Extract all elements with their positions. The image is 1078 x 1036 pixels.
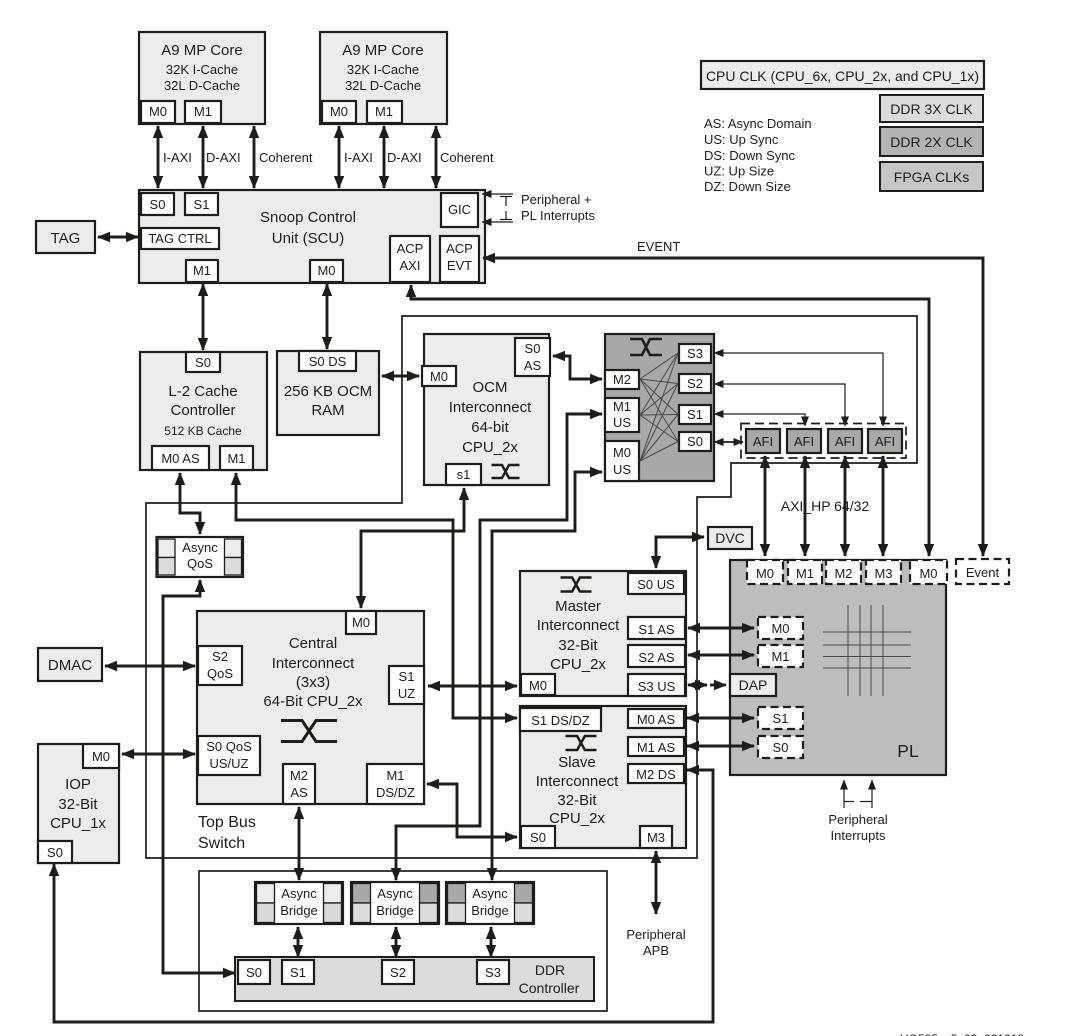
port S2 AS of Master xyxy=(628,645,685,667)
crossbar mesh lines xyxy=(640,353,678,379)
svg-text:32-Bit: 32-Bit xyxy=(557,792,597,809)
svg-text:D-AXI: D-AXI xyxy=(206,150,241,165)
wire D-AXI core1 M1 to SCU S1 xyxy=(202,126,205,188)
svg-text:DVC: DVC xyxy=(715,530,745,546)
svg-text:UZ: Up Size: UZ: Up Size xyxy=(704,164,774,179)
svg-text:CPU_1x: CPU_1x xyxy=(50,815,106,832)
svg-text:Interconnect: Interconnect xyxy=(272,655,355,672)
wire switch S3 to AFI4 xyxy=(714,353,883,426)
wire SCU M1 to L2 S0 xyxy=(202,284,205,350)
port S1 UZ of Central xyxy=(389,666,424,704)
svg-text:Async: Async xyxy=(182,540,218,555)
svg-text:Slave: Slave xyxy=(558,754,596,771)
wire I-AXI core1 M0 to SCU S0 xyxy=(157,126,160,188)
svg-text:AS: AS xyxy=(290,785,308,800)
port S2 QoS of Central xyxy=(198,646,242,685)
port S1 of DDR switch xyxy=(679,405,711,424)
svg-text:CPU CLK (CPU_6x, CPU_2x, and C: CPU CLK (CPU_6x, CPU_2x, and CPU_1x) xyxy=(706,68,979,84)
wire OCM S0 AS to switch M2 xyxy=(553,356,602,379)
wire Slave M1 AS to PL S0 xyxy=(687,745,754,748)
port S1 AS of Master xyxy=(628,617,685,639)
svg-text:512 KB Cache: 512 KB Cache xyxy=(164,424,242,438)
svg-text:Controller: Controller xyxy=(519,980,580,996)
svg-text:S0: S0 xyxy=(195,355,211,370)
block AFI 3 xyxy=(828,429,862,453)
wire SCU M0 to OCM RAM S0 DS xyxy=(326,284,329,349)
svg-text:OCM: OCM xyxy=(473,379,508,396)
block DMAC xyxy=(38,648,102,681)
wire PL interrupts to GIC lower xyxy=(482,221,513,223)
svg-text:CPU_2x: CPU_2x xyxy=(550,656,606,673)
port M0 AXI_HP of PL xyxy=(747,560,783,584)
svg-text:M0: M0 xyxy=(756,566,774,581)
wire Async QoS to DDR S0 xyxy=(163,580,235,973)
svg-text:M2 DS: M2 DS xyxy=(636,767,676,782)
port M2 of DDR switch xyxy=(605,370,639,389)
port S1 of SCU xyxy=(185,193,218,215)
wire L2 M1 to Slave S1 DS/DZ xyxy=(236,473,517,718)
port ACP AXI of SCU xyxy=(390,236,430,282)
svg-text:DDR 3X CLK: DDR 3X CLK xyxy=(890,101,973,117)
tick group symbol upper xyxy=(500,196,512,198)
svg-text:64-Bit CPU_2x: 64-Bit CPU_2x xyxy=(263,693,363,710)
svg-text:32K I-Cache: 32K I-Cache xyxy=(347,62,419,77)
svg-text:M1: M1 xyxy=(227,451,245,466)
legend box FPGA CLKs xyxy=(880,162,983,191)
port M0 AS of Slave xyxy=(628,709,684,728)
svg-text:GIC: GIC xyxy=(448,202,471,217)
port M0 of IOP xyxy=(83,744,119,768)
svg-text:(3x3): (3x3) xyxy=(296,674,330,691)
svg-text:64-bit: 64-bit xyxy=(471,419,509,436)
wire Central S1 UZ to Master M0 xyxy=(428,685,517,688)
svg-text:S0 DS: S0 DS xyxy=(309,354,347,369)
port M0 of A9 core 1 xyxy=(141,101,175,123)
wire ACP AXI to PL M0 xyxy=(411,285,929,556)
wire EVENT from ACP EVT to PL Event xyxy=(483,258,983,556)
port GIC of SCU xyxy=(441,193,478,227)
wire L2 M0 AS to Async QoS xyxy=(180,473,200,534)
port S3 of DDR xyxy=(477,960,509,984)
svg-text:ACP: ACP xyxy=(397,241,424,256)
port M1 AXI_HP of PL xyxy=(788,560,822,584)
legend box DDR 2X CLK xyxy=(880,127,983,156)
svg-text:S3: S3 xyxy=(687,346,703,361)
svg-text:S1: S1 xyxy=(194,197,210,212)
svg-text:M3: M3 xyxy=(647,830,665,845)
svg-text:Controller: Controller xyxy=(170,402,235,419)
wire switch S2 to AFI3 xyxy=(714,384,845,426)
svg-text:M0: M0 xyxy=(92,749,110,764)
svg-text:Interconnect: Interconnect xyxy=(537,617,620,634)
port S0 DS of OCM RAM xyxy=(299,351,356,371)
svg-text:IOP: IOP xyxy=(65,776,91,793)
icon crossbar OCM interconnect xyxy=(492,465,520,478)
svg-text:Switch: Switch xyxy=(198,835,245,852)
svg-text:S0: S0 xyxy=(47,845,63,860)
port M3 of Slave xyxy=(640,826,672,848)
svg-text:Unit (SCU): Unit (SCU) xyxy=(272,230,345,247)
block AFI 4 xyxy=(868,429,902,453)
svg-text:US: Up Sync: US: Up Sync xyxy=(704,132,779,147)
svg-text:AS: AS xyxy=(524,358,542,373)
port M1 of SCU xyxy=(186,260,218,282)
wire I-AXI core2 M0 to SCU xyxy=(338,126,341,188)
port M0 of Central xyxy=(346,611,376,634)
wire OCM RAM to OCM interconnect M0 xyxy=(382,375,419,378)
svg-text:M0: M0 xyxy=(771,621,789,636)
svg-text:US: US xyxy=(613,462,631,477)
svg-text:D-AXI: D-AXI xyxy=(387,150,422,165)
svg-text:Peripheral: Peripheral xyxy=(626,927,685,942)
svg-text:Interrupts: Interrupts xyxy=(831,828,886,843)
svg-text:32L D-Cache: 32L D-Cache xyxy=(164,78,240,93)
svg-text:DAP: DAP xyxy=(739,677,768,693)
wire Central M1 DS/DZ to Slave S0 xyxy=(427,784,517,837)
svg-text:M0: M0 xyxy=(430,369,448,384)
svg-text:AFI: AFI xyxy=(875,434,895,449)
svg-text:S0: S0 xyxy=(525,341,541,356)
svg-text:DS: Down Sync: DS: Down Sync xyxy=(704,148,796,163)
icon crossbar Slave Interconnect xyxy=(566,736,597,750)
svg-text:32K I-Cache: 32K I-Cache xyxy=(166,62,238,77)
block DDR Controller xyxy=(235,957,594,1001)
port S3 of DDR switch xyxy=(679,344,711,363)
svg-text:S2: S2 xyxy=(212,649,228,664)
block Async Bridge 3 xyxy=(446,882,534,924)
container AFI dashed group xyxy=(741,424,906,459)
tick group symbol lower xyxy=(505,211,507,220)
port M1 DS/DZ of Central xyxy=(367,764,424,804)
wire Master S3 US to DAP xyxy=(688,684,707,687)
block A9 MP Core 2 xyxy=(320,32,447,124)
block PL xyxy=(730,560,946,775)
block A9 MP Core 1 xyxy=(139,32,265,124)
block TAG xyxy=(36,221,95,253)
wire peripheral interrupts to GIC upper xyxy=(482,193,513,195)
port M0 AS of L2 xyxy=(152,446,209,470)
block Central Interconnect xyxy=(197,611,424,804)
wire Coherent core2 to SCU xyxy=(435,126,438,188)
block Master Interconnect xyxy=(520,571,686,696)
svg-text:UZ: UZ xyxy=(398,686,415,701)
port Event of PL xyxy=(956,559,1009,584)
svg-text:EVT: EVT xyxy=(447,258,472,273)
block Async QoS xyxy=(157,537,244,577)
svg-text:AFI: AFI xyxy=(835,434,855,449)
svg-text:M0: M0 xyxy=(529,678,547,693)
svg-text:M1: M1 xyxy=(194,104,212,119)
container Top Bus Switch outline xyxy=(146,316,917,858)
svg-text:M0: M0 xyxy=(613,445,631,460)
svg-text:S1: S1 xyxy=(399,669,415,684)
block AFI 2 xyxy=(787,429,821,453)
block Slave Interconnect xyxy=(520,706,686,848)
wire switch M0 US to Async Bridge 3 xyxy=(492,472,602,880)
port M3 AXI_HP of PL xyxy=(866,560,901,584)
svg-text:32-Bit: 32-Bit xyxy=(58,796,98,813)
svg-text:Coherent: Coherent xyxy=(440,150,494,165)
svg-text:UG585_c5_03_021318: UG585_c5_03_021318 xyxy=(900,1032,1024,1036)
wire to DVC and Master S0 US xyxy=(656,537,704,568)
container DDR group xyxy=(199,871,607,1011)
port M2 AXI_HP of PL xyxy=(826,560,861,584)
block 256 KB OCM RAM xyxy=(277,351,379,435)
svg-text:Async: Async xyxy=(472,886,508,901)
svg-text:I-AXI: I-AXI xyxy=(344,150,373,165)
wire AB1 to DDR S1 xyxy=(297,927,300,957)
icon crossbar Central Interconnect xyxy=(281,721,337,742)
svg-text:FPGA CLKs: FPGA CLKs xyxy=(894,169,969,185)
block AFI 1 xyxy=(746,429,780,453)
svg-text:CPU_2x: CPU_2x xyxy=(462,439,518,456)
port M1 AS of Slave xyxy=(628,737,684,756)
legend box CPU CLK xyxy=(701,61,984,89)
wire AB2 to DDR S2 xyxy=(395,927,398,957)
port M0 of A9 core 2 xyxy=(322,101,356,123)
svg-text:DDR 2X CLK: DDR 2X CLK xyxy=(890,134,973,150)
PL routing grid xyxy=(847,605,849,696)
svg-text:S2: S2 xyxy=(390,965,406,980)
wire Central M0 to OCM s1 xyxy=(361,488,464,608)
svg-text:Interconnect: Interconnect xyxy=(536,773,619,790)
svg-text:DMAC: DMAC xyxy=(48,657,92,674)
svg-text:256 KB OCM: 256 KB OCM xyxy=(284,383,372,400)
port S1 GP of PL xyxy=(758,707,803,729)
tick interrupt group xyxy=(844,801,854,803)
svg-text:AXI_HP 64/32: AXI_HP 64/32 xyxy=(781,498,870,514)
wire IOP M0 to Central S0 QoS xyxy=(122,753,195,756)
block Async Bridge 1 xyxy=(255,882,343,924)
port M1 of L2 xyxy=(220,446,253,470)
svg-text:M1: M1 xyxy=(193,263,211,278)
wire AXI_HP AFI1 to PL M0 xyxy=(764,456,767,556)
svg-text:S0: S0 xyxy=(150,197,166,212)
svg-text:M0 AS: M0 AS xyxy=(161,451,200,466)
block Async Bridge 2 xyxy=(351,882,439,924)
port TAG CTRL of SCU xyxy=(141,228,219,249)
svg-text:s1: s1 xyxy=(457,467,471,482)
svg-text:S0: S0 xyxy=(530,830,546,845)
svg-text:DZ: Down Size: DZ: Down Size xyxy=(704,179,791,194)
svg-text:Event: Event xyxy=(966,565,1000,580)
icon crossbar DDR switch xyxy=(630,339,662,355)
wire D-AXI core2 M1 to SCU xyxy=(383,126,386,188)
port s1 of OCM interconnect xyxy=(446,464,481,485)
port S0 of DDR xyxy=(238,960,270,984)
svg-text:M1: M1 xyxy=(375,104,393,119)
block L-2 Cache Controller xyxy=(140,352,267,470)
svg-text:TAG: TAG xyxy=(51,230,81,247)
wire Slave M3 to Peripheral APB xyxy=(655,851,658,914)
svg-text:TAG CTRL: TAG CTRL xyxy=(148,231,211,246)
svg-text:S1: S1 xyxy=(773,711,789,726)
svg-text:M0: M0 xyxy=(317,263,335,278)
svg-text:Master: Master xyxy=(555,598,601,615)
block OCM Interconnect xyxy=(424,334,549,485)
svg-text:QoS: QoS xyxy=(207,666,233,681)
port S0 GP of PL xyxy=(758,736,803,758)
port S0 of Slave xyxy=(521,826,555,848)
wire switch S1 to AFI2 xyxy=(714,414,805,426)
wire AXI_HP AFI2 to PL M1 xyxy=(804,456,807,556)
port DAP of PL xyxy=(730,674,776,696)
svg-text:M0 AS: M0 AS xyxy=(637,712,676,727)
wire switch M1 US to Async Bridge 2 xyxy=(396,414,602,880)
svg-text:US/UZ: US/UZ xyxy=(210,756,249,771)
wire Slave M0 AS to PL S1 xyxy=(687,717,754,720)
svg-text:M0: M0 xyxy=(919,566,937,581)
wire AXI_HP AFI3 to PL M2 xyxy=(844,456,847,556)
port ACP EVT of SCU xyxy=(440,236,479,282)
port S0 QoS US/UZ of Central xyxy=(198,736,260,775)
svg-text:EVENT: EVENT xyxy=(637,239,680,254)
svg-text:S3: S3 xyxy=(485,965,501,980)
svg-text:S1 AS: S1 AS xyxy=(638,622,674,637)
port S0 of SCU xyxy=(141,193,174,215)
svg-text:S1: S1 xyxy=(687,407,703,422)
svg-text:AXI: AXI xyxy=(400,258,421,273)
port M2 DS of Slave xyxy=(628,764,684,783)
svg-text:Peripheral +: Peripheral + xyxy=(521,192,591,207)
svg-text:I-AXI: I-AXI xyxy=(163,150,192,165)
svg-text:S0 US: S0 US xyxy=(637,577,675,592)
svg-text:M0: M0 xyxy=(352,615,370,630)
wire Central M2 AS to Async Bridge 1 xyxy=(298,807,301,880)
svg-text:Snoop Control: Snoop Control xyxy=(260,209,356,226)
wire peripheral interrupt 1 to PL xyxy=(843,780,845,808)
svg-text:RAM: RAM xyxy=(311,402,344,419)
wire AB3 to DDR S3 xyxy=(490,927,493,957)
block Snoop Control Unit (SCU) xyxy=(139,190,485,283)
port M2 AS of Central xyxy=(283,764,315,804)
svg-text:A9 MP Core: A9 MP Core xyxy=(342,42,423,59)
svg-text:APB: APB xyxy=(643,943,669,958)
svg-text:QoS: QoS xyxy=(187,556,213,571)
svg-text:Interconnect: Interconnect xyxy=(449,399,532,416)
port S0 of DDR switch xyxy=(679,432,711,451)
port S0 of L2 xyxy=(186,352,220,372)
port M1 of A9 core 1 xyxy=(185,101,221,123)
svg-text:A9 MP Core: A9 MP Core xyxy=(161,42,242,59)
svg-text:DDR: DDR xyxy=(535,962,565,978)
svg-text:Top Bus: Top Bus xyxy=(198,814,256,831)
port S1 of DDR xyxy=(282,960,314,984)
wire Coherent core1 to SCU xyxy=(253,126,256,188)
wire AXI_HP AFI4 to PL M3 xyxy=(882,456,885,556)
svg-text:Bridge: Bridge xyxy=(280,903,318,918)
svg-text:CPU_2x: CPU_2x xyxy=(549,810,605,827)
svg-text:S2 AS: S2 AS xyxy=(638,650,674,665)
svg-text:S0: S0 xyxy=(773,740,789,755)
svg-text:S0: S0 xyxy=(687,434,703,449)
port S2 of DDR xyxy=(382,960,414,984)
svg-text:32-Bit: 32-Bit xyxy=(558,637,598,654)
svg-text:S0: S0 xyxy=(246,965,262,980)
port S0 AS of OCM interconnect xyxy=(515,338,550,376)
port S0 of IOP xyxy=(38,841,72,863)
port M0 of Master xyxy=(521,674,555,695)
svg-text:AFI: AFI xyxy=(753,434,773,449)
svg-text:Coherent: Coherent xyxy=(259,150,313,165)
svg-text:S1 DS/DZ: S1 DS/DZ xyxy=(531,713,590,728)
svg-text:M1 AS: M1 AS xyxy=(637,740,676,755)
wire DMAC to Central S2 QoS xyxy=(105,665,195,668)
port M1 of A9 core 2 xyxy=(367,101,402,123)
svg-text:PL: PL xyxy=(897,741,919,761)
port M1 GP of PL xyxy=(758,645,803,667)
wire Slave M2 DS to IOP S0 xyxy=(54,770,713,1022)
svg-text:M3: M3 xyxy=(874,566,892,581)
svg-text:M1: M1 xyxy=(796,566,814,581)
port S1 DS/DZ of Slave xyxy=(520,708,601,731)
port M0 GP of PL xyxy=(758,617,803,639)
svg-text:M0: M0 xyxy=(330,104,348,119)
svg-text:S3 US: S3 US xyxy=(638,679,676,694)
svg-text:AS: Async Domain: AS: Async Domain xyxy=(704,116,812,131)
svg-text:32L D-Cache: 32L D-Cache xyxy=(345,78,421,93)
svg-text:AFI: AFI xyxy=(794,434,814,449)
port M0 ACP of PL xyxy=(910,560,947,584)
block IOP xyxy=(38,744,119,863)
port M1 US of DDR switch xyxy=(605,398,639,432)
svg-text:US: US xyxy=(613,415,631,430)
svg-text:L-2 Cache: L-2 Cache xyxy=(168,383,237,400)
svg-text:M0: M0 xyxy=(149,104,167,119)
legend box DDR 3X CLK xyxy=(880,95,983,122)
svg-text:S2: S2 xyxy=(687,376,703,391)
block DDR port switch xyxy=(605,334,714,481)
block DVC xyxy=(708,527,752,549)
svg-text:S1: S1 xyxy=(290,965,306,980)
port S3 US of Master xyxy=(628,674,685,696)
port M0 of SCU xyxy=(310,260,343,282)
svg-text:ACP: ACP xyxy=(446,241,473,256)
wire peripheral interrupt 2 to PL xyxy=(871,780,873,808)
svg-text:M2: M2 xyxy=(834,566,852,581)
svg-text:PL Interrupts: PL Interrupts xyxy=(521,208,595,223)
port S2 of DDR switch xyxy=(679,374,711,393)
wire switch S0 to AFI1 xyxy=(714,441,743,443)
icon crossbar Master Interconnect xyxy=(561,578,592,592)
svg-text:Async: Async xyxy=(377,886,413,901)
svg-text:M2: M2 xyxy=(290,768,308,783)
svg-text:Bridge: Bridge xyxy=(471,903,509,918)
svg-text:Central: Central xyxy=(289,635,337,652)
wire TAG to TAG CTRL xyxy=(98,236,138,239)
svg-text:DS/DZ: DS/DZ xyxy=(376,785,415,800)
svg-text:M1: M1 xyxy=(613,399,631,414)
svg-text:M1: M1 xyxy=(771,649,789,664)
wire Master S2 AS to PL M1 xyxy=(688,654,754,657)
port S0 US of Master xyxy=(628,573,684,594)
svg-text:M1: M1 xyxy=(386,768,404,783)
svg-text:Async: Async xyxy=(281,886,317,901)
svg-text:Peripheral: Peripheral xyxy=(828,812,887,827)
wire Master S1 AS to PL M0 xyxy=(688,627,754,630)
svg-text:S0 QoS: S0 QoS xyxy=(206,739,252,754)
svg-text:Bridge: Bridge xyxy=(376,903,414,918)
port M0 of OCM interconnect xyxy=(422,366,456,386)
port M0 US of DDR switch xyxy=(605,441,639,481)
svg-text:M2: M2 xyxy=(613,372,631,387)
